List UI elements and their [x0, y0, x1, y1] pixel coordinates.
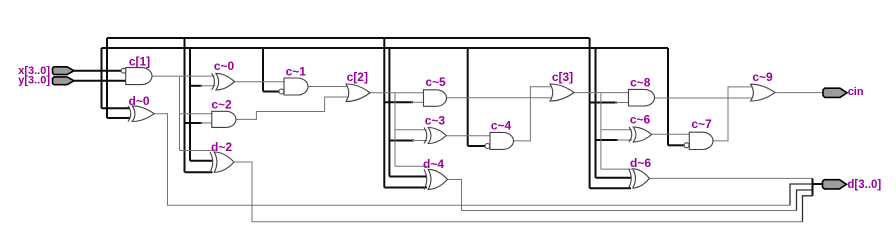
- svg-text:c~3: c~3: [425, 113, 446, 127]
- wire c~6 output to c~7 top input: [652, 133, 691, 135]
- wire c[2] output to c~5 top input: [370, 92, 426, 94]
- AND gate c~7 (inverted bottom input): [684, 117, 713, 149]
- AND gate c~2: [211, 97, 236, 127]
- svg-text:c~7: c~7: [691, 117, 712, 131]
- AND gate c~8: [629, 75, 655, 106]
- wire x-bit tap up to line A and down to d~0 bottom input: [107, 38, 130, 118]
- wire d~0 output to d[0] bottom run: [154, 114, 790, 206]
- wire y[1] drop to c~1 inverted input: [263, 48, 279, 92]
- svg-text:c~2: c~2: [211, 97, 232, 111]
- wire c~7 output rising to c~9 top input: [713, 87, 753, 141]
- wire section3 drop B (y[2]) with branch to c~3 and d~4: [389, 48, 427, 177]
- input pin x[3..0]: [18, 65, 74, 77]
- wire c[1] branch down to c~2 and d~2 top inputs: [180, 76, 216, 150]
- svg-text:d~4: d~4: [423, 157, 444, 171]
- XOR gate c~0: [212, 59, 235, 90]
- svg-text:d~6: d~6: [630, 156, 651, 170]
- wire y[2] drop to c~4 inverted input: [468, 48, 485, 146]
- wire c[3] output to c~8 top input: [574, 92, 631, 94]
- wire c~9 output to cin pin: [775, 92, 823, 94]
- XOR gate d~6 (3-input): [629, 156, 652, 188]
- OR gate c[2]: [346, 70, 370, 102]
- wire section4 drop B (y[3]) with branch to c~6 and d~6: [596, 48, 633, 178]
- AND gate c~1 (inverted bottom input): [279, 64, 308, 95]
- svg-text:c~8: c~8: [630, 75, 651, 89]
- svg-text:d~0: d~0: [128, 94, 149, 108]
- svg-text:c~6: c~6: [630, 113, 651, 127]
- wire c~5 output to c[3] bottom input: [447, 97, 553, 99]
- wire c[1] output to c~0 top input: [153, 75, 215, 77]
- AND gate c~4 (inverted bottom input): [485, 118, 514, 149]
- wire c~0 output to c~1 top input: [235, 81, 287, 83]
- svg-text:d~2: d~2: [211, 140, 232, 154]
- input pin y[3..0]: [18, 75, 74, 87]
- svg-text:c[1]: c[1]: [129, 55, 150, 69]
- wire d[1] riser to output bus: [803, 196, 813, 222]
- svg-text:d[3..0]: d[3..0]: [847, 179, 881, 191]
- wire d[3..0] bus vertical join and pin stub: [813, 178, 824, 195]
- wire y-bit tap up to line B and down to d~0 top input: [102, 48, 131, 108]
- wire c~3 output to c~4 top input: [446, 135, 492, 137]
- wire c[3] branch down to c~6 and d~6 top inputs: [601, 93, 632, 170]
- XOR gate d~2 (3-input): [210, 140, 234, 173]
- output pin d[3..0]: [823, 179, 882, 191]
- wire d~4 output to d[2] bottom run: [448, 180, 797, 211]
- wire y-bus top line B: [102, 47, 669, 49]
- AND gate c~5: [424, 75, 447, 107]
- wire x[3..0] pin to c[1] inverted input: [74, 70, 122, 72]
- wire c~8 output to c~9 bottom input: [655, 97, 754, 99]
- output pin cin: [823, 86, 864, 98]
- XOR gate d~4 (3-input): [423, 157, 448, 189]
- svg-text:c~1: c~1: [286, 64, 307, 78]
- wire x-bus top line A: [107, 37, 590, 39]
- wire y[3..0] pin to c[1] lower input: [74, 80, 128, 82]
- OR gate c[3]: [550, 70, 574, 101]
- wire section2 drop B (y[1]) with branch to c~0 and d~2: [190, 48, 215, 161]
- wire section4 drop A (x[3]) with branch to c~8 and d~6: [590, 38, 631, 188]
- svg-text:c~9: c~9: [752, 70, 773, 84]
- wire section3 drop A (x[2]) with branch to c~5 and d~4: [384, 38, 427, 188]
- wire y[3] drop (line B end) to c~7 inverted input: [668, 48, 684, 145]
- OR gate c~9: [751, 70, 775, 101]
- wire c~4 output rising to c[3] top input: [514, 87, 553, 141]
- wire d[0] riser to output bus: [790, 184, 813, 205]
- AND gate c[1] (inverted top input): [121, 55, 152, 85]
- wire c[2] branch down to c~3 and d~4 top inputs: [395, 93, 427, 167]
- XOR gate c~3: [424, 113, 446, 143]
- svg-text:c~5: c~5: [425, 75, 446, 89]
- wire d~6 output to d[3..0] bus join: [649, 177, 813, 179]
- wire d[2] riser to output bus: [797, 190, 813, 211]
- XOR gate c~6: [629, 113, 652, 142]
- svg-text:c~4: c~4: [491, 118, 512, 132]
- XOR gate d~0: [128, 94, 154, 121]
- svg-text:c[2]: c[2]: [347, 70, 368, 84]
- svg-text:c~0: c~0: [214, 59, 235, 73]
- wire d~2 output to d[1] bottom run: [234, 162, 803, 222]
- wire c~1 output to c[2] top input: [308, 86, 349, 88]
- wire section2 drop A (x[1]) with branch to c~2 and d~2: [185, 38, 216, 172]
- svg-text:cin: cin: [848, 86, 864, 98]
- wire c~2 output jogging to c[2] bottom input: [236, 97, 349, 119]
- svg-text:y[3..0]: y[3..0]: [18, 75, 50, 87]
- svg-text:c[3]: c[3]: [552, 70, 573, 84]
